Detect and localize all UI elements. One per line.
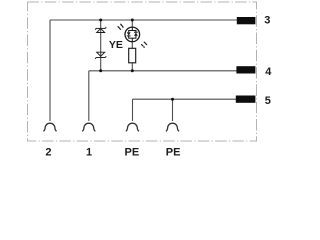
wire PE bus (node to terminal 5) (133, 98, 237, 100)
svg-text:3: 3 (264, 15, 270, 27)
wire left leg to contact 2 (49, 20, 51, 121)
wire LED branch upper (131, 20, 133, 27)
svg-text:4: 4 (265, 66, 272, 78)
LED indicator circle (125, 27, 140, 42)
wire leg to contact 1 (88, 71, 90, 121)
junction dot PE bus (171, 98, 174, 101)
socket contact 2 (43, 123, 56, 131)
resistor R1 (129, 48, 136, 63)
socket contact PE left (126, 123, 139, 131)
wire top bus (node to terminal 3) (50, 19, 237, 21)
wire leg to PE contact left (132, 99, 134, 121)
wire LED to resistor (131, 42, 133, 49)
terminal block 3 (237, 17, 256, 24)
terminal block 5 (236, 96, 256, 103)
junction dot mid-right (131, 69, 134, 72)
wire suppressor branch (100, 20, 102, 71)
svg-text:5: 5 (265, 95, 271, 107)
junction dot mid-left (99, 69, 102, 72)
LED chip right triangle (up) (134, 32, 138, 36)
LED light ray arrow lower-right A (144, 42, 148, 46)
svg-text:1: 1 (86, 147, 92, 159)
svg-text:YE: YE (109, 39, 123, 51)
LED inner anti-parallel chips (127, 27, 138, 41)
zener diode D2 (lower, cathode down) (95, 52, 106, 59)
svg-text:PE: PE (166, 147, 181, 159)
junction dot top-right (131, 19, 134, 22)
svg-text:PE: PE (125, 147, 140, 159)
enclosure dash-dot border (28, 2, 257, 141)
LED light ray arrow lower-right B (141, 44, 145, 48)
LED light ray arrow upper-left B (117, 26, 121, 30)
svg-text:2: 2 (45, 147, 51, 159)
socket contact 1 (82, 123, 95, 131)
zener diode D1 (upper, cathode up) (95, 27, 106, 32)
wire leg to PE contact right (172, 99, 174, 121)
terminal block 4 (236, 66, 255, 73)
junction dot top-left (99, 19, 102, 22)
wire mid bus (node to terminal 4) (89, 70, 237, 72)
wire resistor to mid bus (131, 63, 133, 71)
LED chip left triangle (down) (127, 32, 131, 36)
LED light ray arrow upper-left A (120, 24, 124, 28)
socket contact PE right (166, 123, 179, 131)
